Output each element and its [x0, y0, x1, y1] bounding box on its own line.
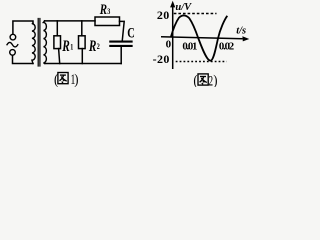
- svg-text:2: 2: [208, 72, 213, 87]
- svg-text:0.02: 0.02: [219, 40, 234, 52]
- svg-text:2: 2: [97, 41, 100, 51]
- svg-text:t/s: t/s: [236, 25, 246, 36]
- svg-text:C: C: [127, 23, 135, 40]
- svg-text:3: 3: [107, 6, 110, 16]
- svg-text:R: R: [88, 37, 96, 54]
- svg-text:u/V: u/V: [175, 2, 192, 13]
- svg-text:): ): [213, 73, 218, 87]
- svg-text:): ): [74, 72, 79, 87]
- svg-text:0.01: 0.01: [182, 41, 197, 53]
- svg-text:(: (: [193, 73, 198, 87]
- svg-text:R: R: [99, 0, 107, 17]
- svg-text:R: R: [61, 37, 69, 54]
- svg-text:20: 20: [157, 8, 169, 22]
- svg-text:0: 0: [166, 38, 172, 50]
- svg-text:1: 1: [70, 41, 73, 51]
- svg-text:-20: -20: [153, 52, 170, 66]
